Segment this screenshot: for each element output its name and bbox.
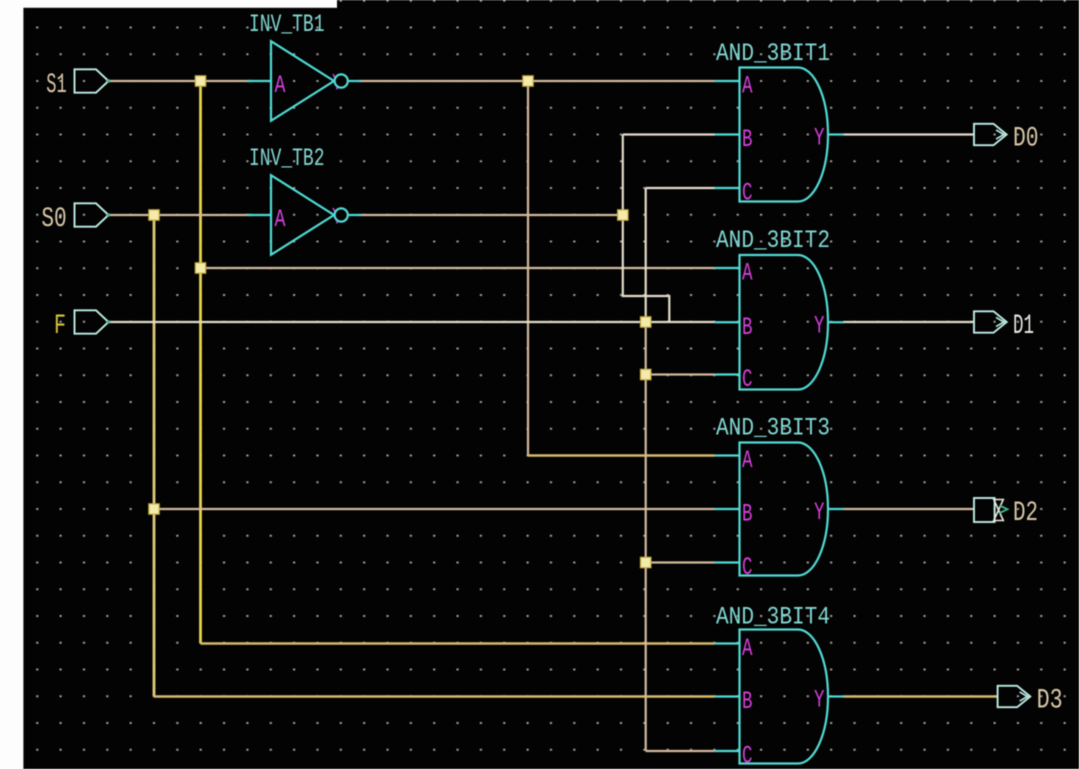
U5 input pin stub B — [715, 508, 740, 510]
inverter U1 input pin stub A — [247, 80, 271, 82]
input port S0 — [75, 203, 109, 226]
wire net F vertical (x=645.7) upper — [645, 188, 647, 322]
wire net S0n horizontal to AND_3BIT1 pin B — [623, 133, 715, 135]
U4 input pin stub A — [715, 267, 740, 269]
U6 input pin stub A — [715, 642, 740, 644]
output port D2 — [974, 498, 995, 522]
svg-text:AND_3BIT2: AND_3BIT2 — [716, 226, 830, 255]
svg-text:D1: D1 — [1013, 311, 1034, 342]
U4 input pin stub C — [715, 373, 740, 375]
white sheet border top — [0, 0, 337, 8]
wire net S0 vertical branch (x=154) — [153, 215, 156, 697]
wire net S1n branch to AND_3BIT3 pin A — [528, 454, 715, 456]
U6 output pin stub Y — [828, 695, 844, 697]
wire net S0 branch to AND_3BIT3 pin B — [154, 508, 715, 510]
junction node S0n tap — [618, 210, 628, 220]
inverter U2 output bubble — [335, 208, 348, 221]
inverter U2 (INV_TB2) — [271, 175, 334, 255]
svg-text:INV_TB2: INV_TB2 — [249, 144, 325, 173]
output port D3 — [998, 686, 1031, 707]
wire net S1 vertical branch (x=200.5) — [199, 81, 202, 644]
wire net D3 AND_3BIT4 Y to D3 port — [843, 695, 998, 697]
U5 input pin stub A — [715, 454, 740, 456]
svg-text:S1: S1 — [46, 70, 66, 101]
svg-text:D0: D0 — [1013, 124, 1039, 155]
inverter U2 input pin stub A — [247, 214, 271, 216]
AND gate U5 (AND_3BIT3) — [740, 443, 829, 576]
inverter U1 (INV_TB1) — [271, 41, 334, 121]
wire net F vertical (x=645.7) lower — [645, 322, 647, 751]
junction node F to AND_3BIT2 C — [641, 369, 651, 379]
svg-text:C: C — [742, 179, 753, 208]
junction node F to AND_3BIT3 C — [641, 557, 651, 567]
output port D2 hourglass marker — [994, 500, 1004, 521]
svg-text:Y: Y — [814, 311, 825, 340]
U6 input pin stub C — [715, 750, 740, 752]
wire net D2 AND_3BIT3 Y to D2 port — [843, 508, 974, 510]
svg-text:S0: S0 — [41, 204, 66, 235]
output port D2 arrow marker — [1000, 506, 1008, 514]
svg-text:Y: Y — [814, 498, 825, 527]
svg-text:A: A — [742, 634, 753, 663]
junction node S1 to AND_3BIT2 A — [195, 263, 205, 273]
wire net F to AND_3BIT4 pin C — [646, 750, 715, 752]
U3 input pin stub B — [715, 133, 740, 135]
svg-text:B: B — [742, 687, 753, 716]
input port S1 — [75, 69, 109, 92]
U4 input pin stub B — [715, 321, 740, 323]
AND gate U4 (AND_3BIT2) — [740, 255, 829, 390]
wire net S1n vertical branch (x=528) — [527, 81, 529, 456]
U3 input pin stub A — [715, 80, 740, 82]
wire net S1 branch to AND_3BIT2 pin A — [201, 267, 715, 269]
wire net D1 AND_3BIT2 Y to D1 port — [843, 321, 974, 323]
wire net F to AND_3BIT2 pin C — [646, 373, 715, 375]
wire net F port to AND_3BIT2 pin B row — [109, 321, 715, 323]
svg-text:Y: Y — [814, 686, 825, 715]
wire S1 port to INV_TB1 input — [109, 80, 253, 82]
wire S0 port to INV_TB2 input — [109, 214, 253, 216]
input port F — [75, 310, 109, 333]
svg-text:C: C — [742, 365, 753, 394]
junction node S0 to AND_3BIT3 B — [149, 504, 159, 514]
svg-text:C: C — [742, 553, 753, 582]
U3 input pin stub C — [715, 187, 740, 189]
U6 input pin stub B — [715, 695, 740, 697]
svg-text:AND_3BIT4: AND_3BIT4 — [716, 603, 830, 632]
svg-text:D3: D3 — [1037, 686, 1063, 717]
wire net S0n INV_TB2 output to junction — [359, 214, 623, 216]
svg-text:A: A — [742, 259, 753, 288]
junction node S1n tap — [523, 76, 533, 86]
junction node S0 tap — [149, 210, 159, 220]
inverter U2 output pin stub — [348, 214, 361, 216]
svg-text:B: B — [742, 500, 753, 529]
AND gate U3 (AND_3BIT1) — [740, 68, 828, 202]
inverter U1 output pin stub — [348, 80, 361, 82]
svg-text:A: A — [742, 72, 753, 101]
wire net S0n vertical to AND_3BIT1 pin B — [622, 135, 624, 216]
svg-text:AND_3BIT3: AND_3BIT3 — [716, 414, 830, 443]
U5 input pin stub C — [715, 561, 740, 563]
svg-text:C: C — [742, 742, 753, 769]
wire net F to AND_3BIT1 pin C — [646, 187, 715, 189]
junction node S1/inverter tap — [195, 76, 205, 86]
junction node F tap — [641, 317, 651, 327]
U3 output pin stub Y — [828, 133, 844, 135]
svg-text:A: A — [275, 205, 286, 234]
svg-text:INV_TB1: INV_TB1 — [249, 10, 325, 39]
wire net F to AND_3BIT3 pin C — [646, 561, 715, 563]
svg-text:F: F — [54, 311, 66, 342]
wire net S0 branch to AND_3BIT4 pin B — [154, 695, 715, 697]
output port D0 — [974, 124, 1007, 145]
svg-text:B: B — [742, 313, 753, 342]
wire net S0n jog to AND_3BIT2 pin B — [623, 215, 670, 322]
U5 output pin stub Y — [828, 508, 844, 510]
svg-text:A: A — [275, 71, 286, 100]
svg-text:AND_3BIT1: AND_3BIT1 — [716, 39, 830, 68]
svg-text:A: A — [742, 446, 753, 475]
svg-text:Y: Y — [814, 124, 825, 153]
output port D1 — [974, 311, 1007, 332]
U4 output pin stub Y — [828, 321, 844, 323]
wire net D0 AND_3BIT1 Y to D0 port — [843, 133, 974, 135]
white sheet border left — [0, 0, 23, 769]
wire net S1n INV_TB1 output to AND_3BIT1 pin A — [359, 80, 715, 82]
inverter U1 output bubble — [335, 74, 348, 87]
wire net S1 branch to AND_3BIT4 pin A — [201, 642, 715, 644]
svg-text:D2: D2 — [1013, 498, 1038, 529]
svg-text:B: B — [742, 125, 753, 154]
AND gate U6 (AND_3BIT4) — [740, 630, 829, 764]
